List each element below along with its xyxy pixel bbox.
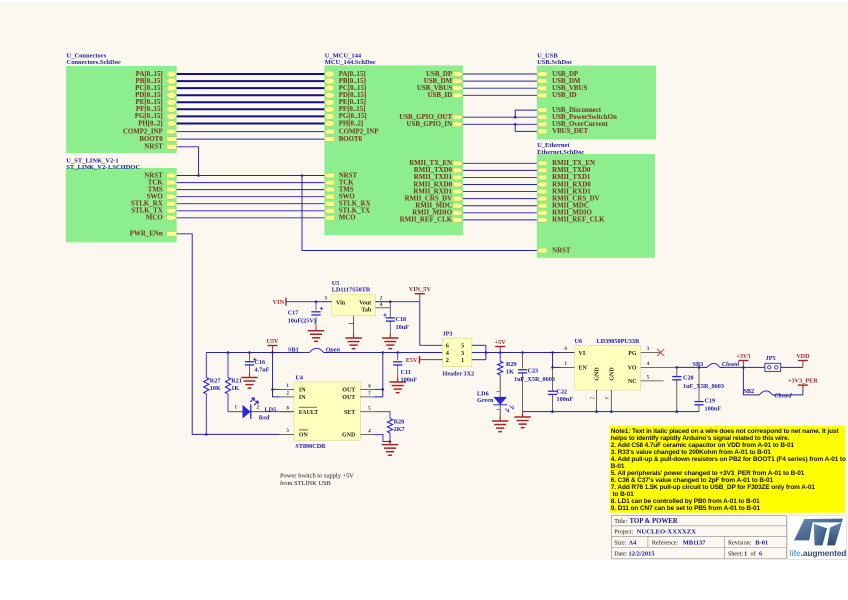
svg-text:LD5: LD5 xyxy=(265,406,277,413)
capacitor C11 xyxy=(397,353,399,361)
svg-text:VIN: VIN xyxy=(273,299,285,306)
ground (C17) xyxy=(315,326,317,331)
LED LD5 (Red) xyxy=(228,411,243,413)
svg-text:PG[0..15]: PG[0..15] xyxy=(339,113,367,120)
svg-text:5: 5 xyxy=(461,344,464,350)
sheet entry RMII_TX_EN (U_MCU_144 right) xyxy=(453,161,463,166)
svg-text:Title:: Title: xyxy=(614,519,627,525)
svg-text:VDD: VDD xyxy=(796,353,810,360)
ground (U5) xyxy=(353,334,355,339)
wire OUT pins to rail xyxy=(374,388,383,390)
svg-text:+3V3_PER: +3V3_PER xyxy=(788,377,818,384)
bus PE[0..15] xyxy=(177,101,325,103)
power switch U4 ST890CDR xyxy=(294,382,360,441)
svg-text:1uF_X5R_0603: 1uF_X5R_0603 xyxy=(683,383,724,390)
svg-text:RMII_TX_EN: RMII_TX_EN xyxy=(409,160,452,167)
svg-text:PD[0..15]: PD[0..15] xyxy=(135,92,163,99)
capacitor C20 xyxy=(676,367,678,376)
bus PH[0..2] xyxy=(177,123,325,125)
sheet entry RMII_MDC (U_Ethernet) xyxy=(537,203,547,208)
sheet entry MCO (U_MCU_144 left) xyxy=(324,216,334,221)
sheet entry NRST (U_Connectors) xyxy=(167,145,177,150)
node junction R27/ON xyxy=(205,433,208,436)
ground (C16) xyxy=(249,373,251,378)
sheet entry PG[0..15] (U_Connectors) xyxy=(166,114,176,120)
wire +5V rail right xyxy=(486,352,575,354)
svg-text:6: 6 xyxy=(446,344,449,350)
svg-text:PWR_ENn: PWR_ENn xyxy=(130,231,163,238)
svg-text:GND: GND xyxy=(609,367,615,381)
sheet entry RMII_CRS_DV (U_MCU_144 right) xyxy=(453,196,463,201)
wire JP3 right pins xyxy=(472,344,486,346)
svg-text:PG: PG xyxy=(628,351,637,357)
svg-text:RMII_RXD1: RMII_RXD1 xyxy=(413,188,452,195)
sheet entry SWO (U_ST_LINK) xyxy=(167,194,177,199)
sheet entry PH[0..2] (U_MCU_144 left) xyxy=(324,121,334,127)
sheet entry PB[0..15] (U_Connectors) xyxy=(166,78,176,84)
svg-text:Date:: Date: xyxy=(614,551,628,557)
resistor R21 xyxy=(227,353,229,378)
pin 5 (U4 right) xyxy=(360,411,374,413)
wire TCK xyxy=(177,182,325,184)
svg-text:BOOT0: BOOT0 xyxy=(139,136,163,143)
svg-text:RMII_MDC: RMII_MDC xyxy=(552,203,589,210)
svg-text:SB2: SB2 xyxy=(743,388,754,395)
svg-text:VI: VI xyxy=(579,351,586,357)
node junction C19 top xyxy=(698,366,701,369)
svg-text:1K: 1K xyxy=(231,385,239,392)
svg-text:MCO: MCO xyxy=(146,215,163,222)
power port U5V xyxy=(272,346,274,353)
sheet entry COMP2_INP (U_Connectors) xyxy=(167,129,177,134)
wire E5V to JP3 pin2 xyxy=(420,359,443,361)
wire SET to R28 xyxy=(374,412,390,419)
sheet entry TCK (U_ST_LINK) xyxy=(167,180,177,185)
sheet entry RMII_MDIO (U_MCU_144 right) xyxy=(453,210,463,215)
svg-text:PA[0..15]: PA[0..15] xyxy=(136,71,163,78)
svg-text:RMII_RXD0: RMII_RXD0 xyxy=(552,181,591,188)
svg-text:Ethernet.SchDoc: Ethernet.SchDoc xyxy=(537,149,584,156)
svg-text:Power Switch to supply +5V: Power Switch to supply +5V xyxy=(280,473,354,480)
node junction GND2 xyxy=(595,410,598,413)
pin 6 (U6 VI) xyxy=(561,352,575,354)
wire EN to U6 xyxy=(553,366,561,368)
svg-text:PF[0..15]: PF[0..15] xyxy=(339,106,366,113)
resistor R29 xyxy=(499,353,501,362)
svg-text:USB_DM: USB_DM xyxy=(424,78,453,85)
svg-text:VO: VO xyxy=(628,366,637,372)
svg-text:BOOT0: BOOT0 xyxy=(339,136,363,143)
wire PWR_ENn to ON xyxy=(177,234,280,435)
node junction R28/GND xyxy=(389,440,392,443)
sheet entry PA[0..15] (U_Connectors) xyxy=(166,71,176,77)
svg-text:PA[0..15]: PA[0..15] xyxy=(339,71,366,78)
wire RMII_TXD0 xyxy=(463,169,537,171)
svg-text:NRST: NRST xyxy=(552,247,571,254)
sheet entry RMII_CRS_DV (U_Ethernet) xyxy=(537,196,547,201)
wire U5V rail left xyxy=(206,352,309,354)
sheet entry USB_GPIO_OUT (U_MCU_144) xyxy=(453,115,463,120)
svg-text:RMII_RXD1: RMII_RXD1 xyxy=(552,188,591,195)
svg-text:USB_DP: USB_DP xyxy=(426,71,453,78)
sheet entry USB_DP (U_MCU_144 right) xyxy=(453,72,463,77)
svg-text:PF[0..15]: PF[0..15] xyxy=(136,106,163,113)
svg-text:Sheet:: Sheet: xyxy=(728,551,744,557)
svg-text:R29: R29 xyxy=(506,361,517,368)
bus PA[0..15] xyxy=(177,73,325,75)
svg-text:SWO: SWO xyxy=(147,194,164,201)
sheet entry USB_ID (U_USB) xyxy=(537,93,547,98)
svg-text:B-01: B-01 xyxy=(755,539,768,546)
node junction C22 top xyxy=(551,351,554,354)
node junction C22 bottom xyxy=(551,410,554,413)
wire RMII_MDC xyxy=(463,205,537,207)
sheet entry PF[0..15] (U_Connectors) xyxy=(166,107,176,113)
svg-text:RMII_REF_CLK: RMII_REF_CLK xyxy=(400,217,453,224)
pin 5 (U6 NC) xyxy=(641,380,664,382)
svg-text:Size:: Size: xyxy=(614,540,626,546)
svg-text:RMII_CRS_DV: RMII_CRS_DV xyxy=(552,195,599,202)
sheet entry NRST (U_Ethernet) xyxy=(537,248,547,253)
node junction C23 top xyxy=(521,351,524,354)
node junction GND0 xyxy=(610,410,613,413)
pin 7 (U4 right) xyxy=(360,396,374,398)
svg-text:JP5: JP5 xyxy=(766,355,776,362)
wire STLK_RX xyxy=(177,203,325,205)
ground (C11) xyxy=(397,378,399,383)
wire LD5 to FAULT xyxy=(251,411,294,413)
svg-text:USB_DM: USB_DM xyxy=(552,78,581,85)
svg-text:STLK_TX: STLK_TX xyxy=(339,208,370,215)
sheet entry RMII_TXD0 (U_Ethernet) xyxy=(537,168,547,173)
node junction OUT6 xyxy=(382,388,385,391)
svg-text:NRST: NRST xyxy=(144,172,163,179)
svg-text:RMII_MDIO: RMII_MDIO xyxy=(412,210,452,217)
svg-text:5. All peripherals' power chan: 5. All peripherals' power changed to +3V… xyxy=(611,470,805,477)
sheet entry USB_VBUS (U_MCU_144 right) xyxy=(453,86,463,91)
svg-text:9. D11 on CN7 can be set to PB: 9. D11 on CN7 can be set to PB5 from A-0… xyxy=(611,505,761,512)
pin 2 (U4 left) xyxy=(280,396,294,398)
svg-text:RMII_REF_CLK: RMII_REF_CLK xyxy=(552,217,605,224)
svg-text:Vin: Vin xyxy=(336,300,346,306)
sheet entry SWO (U_MCU_144 left) xyxy=(324,194,334,199)
pin 4 (U4 right) xyxy=(360,433,374,435)
svg-text:IN: IN xyxy=(299,395,306,401)
svg-text:PH[0..2]: PH[0..2] xyxy=(138,120,163,127)
sheet entry RMII_RXD1 (U_Ethernet) xyxy=(537,189,547,194)
node junction C20 bottom xyxy=(676,410,679,413)
svg-text:OUT: OUT xyxy=(342,395,355,401)
wire RMII_RXD1 xyxy=(463,191,537,193)
svg-text:EN: EN xyxy=(579,366,588,372)
sheet entry RMII_REF_CLK (U_Ethernet) xyxy=(537,218,547,223)
sheet symbol U_Ethernet xyxy=(537,154,655,258)
svg-text:PC[0..15]: PC[0..15] xyxy=(339,85,367,92)
bus PC[0..15] xyxy=(177,87,325,89)
svg-text:ST890CDR: ST890CDR xyxy=(295,443,326,450)
svg-text:STLK_RX: STLK_RX xyxy=(339,201,371,208)
svg-text:STLK_TX: STLK_TX xyxy=(131,208,162,215)
svg-text:PC[0..15]: PC[0..15] xyxy=(135,85,163,92)
power port E5V xyxy=(419,356,421,364)
node junction C17 xyxy=(315,300,318,303)
wire USB_GPIO_OUT / USB_PowerSwitchOn xyxy=(463,116,537,118)
wire MCO xyxy=(177,217,325,219)
svg-text:RMII_TXD0: RMII_TXD0 xyxy=(414,167,453,174)
svg-text:Reference:: Reference: xyxy=(652,539,679,546)
wire USB_DM xyxy=(463,80,537,82)
sheet entry USB_OverCurrent (U_USB) xyxy=(537,122,547,127)
sheet entry PB[0..15] (U_MCU_144 left) xyxy=(324,78,334,84)
svg-text:PH[0..2]: PH[0..2] xyxy=(339,120,364,127)
svg-text:1: 1 xyxy=(461,358,464,364)
sheet entry BOOT0 (U_MCU_144) xyxy=(324,137,334,142)
svg-text:Project:: Project: xyxy=(614,529,633,535)
sheet entry RMII_TX_EN (U_Ethernet) xyxy=(537,161,547,166)
svg-text:NC: NC xyxy=(628,379,637,385)
sheet entry COMP2_INP (U_MCU_144) xyxy=(324,129,334,134)
ground (C23) xyxy=(522,412,524,417)
sheet symbol U_USB xyxy=(537,66,656,140)
bus PG[0..15] xyxy=(177,115,325,117)
svg-text:RMII_MDIO: RMII_MDIO xyxy=(552,210,592,217)
svg-text:from STLINK USB: from STLINK USB xyxy=(280,480,331,487)
node junction OUT vertical xyxy=(382,351,385,354)
wire RMII_TXD1 xyxy=(463,176,537,178)
svg-text:100nF: 100nF xyxy=(705,405,722,412)
sheet entry USB_VBUS (U_USB) xyxy=(537,86,547,91)
svg-text:TOP & POWER: TOP & POWER xyxy=(630,518,678,525)
svg-text:C19: C19 xyxy=(705,398,716,405)
svg-text:COMP2_INP: COMP2_INP xyxy=(339,128,380,135)
svg-text:PD[0..15]: PD[0..15] xyxy=(339,92,367,99)
sheet entry RMII_TXD1 (U_MCU_144 right) xyxy=(453,175,463,180)
svg-text:IN: IN xyxy=(299,388,306,394)
svg-text:USB_VBUS: USB_VBUS xyxy=(552,85,587,92)
sheet entry PC[0..15] (U_MCU_144 left) xyxy=(324,85,334,91)
svg-text:C18: C18 xyxy=(396,316,407,323)
node junction +5V xyxy=(499,351,502,354)
svg-text:R28: R28 xyxy=(394,418,405,425)
sheet entry USB_ID (U_MCU_144 right) xyxy=(453,93,463,98)
svg-text:A4: A4 xyxy=(629,539,638,546)
svg-text:USB_ID: USB_ID xyxy=(552,92,577,99)
power port VDD xyxy=(802,361,804,368)
svg-text:Red: Red xyxy=(259,415,270,422)
sheet entry NRST (U_MCU_144 left) xyxy=(324,173,334,178)
node junction C16 xyxy=(248,351,251,354)
svg-text:Connectors.SchDoc: Connectors.SchDoc xyxy=(67,59,121,66)
node junction U5V/IN xyxy=(271,351,274,354)
svg-text:COMP2_INP: COMP2_INP xyxy=(123,128,164,135)
pin 4 (U5) xyxy=(375,307,390,309)
node junction C11 xyxy=(396,351,399,354)
sheet entry RMII_TXD1 (U_Ethernet) xyxy=(537,175,547,180)
svg-text:RMII_TXD0: RMII_TXD0 xyxy=(552,167,591,174)
wire +3V3 to SB2 xyxy=(743,367,759,395)
notes block xyxy=(610,426,846,513)
pin 3 (U5) xyxy=(316,301,332,303)
solder bridge SB1 (Open) xyxy=(303,352,310,354)
sheet entry NRST (U_ST_LINK) xyxy=(167,173,177,178)
wire VIN_5V down to JP3 pin6 xyxy=(420,302,443,346)
svg-text:USB_VBUS: USB_VBUS xyxy=(417,85,452,92)
svg-text:USB_OverCurrent: USB_OverCurrent xyxy=(552,121,608,128)
svg-text:E5V: E5V xyxy=(406,357,418,364)
svg-text:MCU_144.SchDoc: MCU_144.SchDoc xyxy=(325,59,376,66)
sheet entry PE[0..15] (U_Connectors) xyxy=(166,100,176,106)
wire branch to VBUS_DET xyxy=(515,124,537,131)
svg-text:10uF(25V): 10uF(25V) xyxy=(288,317,316,324)
wire branch to USB_Disconnect xyxy=(515,110,537,117)
svg-text:2: 2 xyxy=(446,358,449,364)
pin 4 (U6 VO) xyxy=(641,366,677,368)
svg-text:SWO: SWO xyxy=(339,194,356,201)
capacitor C16 xyxy=(249,353,251,362)
capacitor C19 xyxy=(698,367,700,401)
svg-text:C16: C16 xyxy=(255,359,266,366)
sheet entry USB_Disconnect (U_USB) xyxy=(537,108,547,113)
svg-text:USB_GPIO_OUT: USB_GPIO_OUT xyxy=(399,114,452,121)
svg-text:SET: SET xyxy=(344,410,355,416)
pin 8 (U4 left) xyxy=(280,411,294,413)
svg-text:12/2/2015: 12/2/2015 xyxy=(629,550,655,557)
capacitor C18 xyxy=(389,302,391,318)
svg-text:PE[0..15]: PE[0..15] xyxy=(136,99,163,106)
pins GND 2/0 (U6) xyxy=(596,390,598,412)
pin 1 (U6 EN) xyxy=(561,366,575,368)
svg-text:PB[0..15]: PB[0..15] xyxy=(136,78,163,85)
pin 3 (U6 PG) + no-connect xyxy=(641,352,661,354)
wire USB_DP xyxy=(463,73,537,75)
node junction GPIO_IN xyxy=(514,123,517,126)
svg-text:8. LD1 can be controlled by PB: 8. LD1 can be controlled by PB0 from A-0… xyxy=(611,498,760,505)
svg-text:MCO: MCO xyxy=(339,215,356,222)
wire NRST STLINK to MCU xyxy=(177,175,325,177)
svg-text:R27: R27 xyxy=(210,377,221,384)
header JP3 xyxy=(443,338,472,367)
capacitor C23 xyxy=(522,353,524,369)
ST logo box xyxy=(788,516,847,560)
ground (U4/R28) xyxy=(389,442,391,445)
wire RMII_TX_EN xyxy=(463,162,537,164)
svg-text:USB_DP: USB_DP xyxy=(552,71,579,78)
node junction +3V3 xyxy=(742,366,745,369)
sheet entry RMII_RXD0 (U_MCU_144 right) xyxy=(453,182,463,187)
svg-text:C23: C23 xyxy=(528,368,539,375)
sheet entry VBUS_DET (U_USB) xyxy=(537,129,547,134)
wire STLK_TX xyxy=(177,210,325,212)
wire Vout / VIN_5V xyxy=(375,301,419,303)
sheet entry USB_DM (U_USB) xyxy=(537,79,547,84)
sheet entry STLK_TX (U_ST_LINK) xyxy=(167,209,177,214)
wire GND(U4) to ground xyxy=(374,434,390,441)
svg-text:VBUS_DET: VBUS_DET xyxy=(552,128,588,135)
svg-text:PE[0..15]: PE[0..15] xyxy=(339,99,366,106)
svg-text:Revision:: Revision: xyxy=(728,540,752,546)
svg-text:USB_PowerSwitchOn: USB_PowerSwitchOn xyxy=(552,114,617,121)
svg-text:RMII_MDC: RMII_MDC xyxy=(415,203,452,210)
sheet symbol U_Connectors xyxy=(66,66,177,153)
svg-text:Closed: Closed xyxy=(774,392,792,399)
regulator U6 LD39050PU33R xyxy=(575,346,641,390)
wire VI rail xyxy=(486,352,561,354)
node NRST junction 2 xyxy=(301,174,304,177)
sheet entry PC[0..15] (U_Connectors) xyxy=(166,85,176,91)
svg-text:TMS: TMS xyxy=(339,186,354,193)
power port +3V3 xyxy=(742,361,744,368)
wire GND bus xyxy=(523,411,699,413)
svg-text:USB_ID: USB_ID xyxy=(428,92,453,99)
power port VIN_5V xyxy=(419,294,421,302)
wire RMII_REF_CLK xyxy=(463,219,537,221)
svg-text:1: 1 xyxy=(744,550,747,557)
resistor R28 xyxy=(387,419,392,434)
sheet entry PE[0..15] (U_MCU_144 left) xyxy=(324,100,334,106)
svg-text:Vout: Vout xyxy=(359,300,371,306)
wire RMII_RXD0 xyxy=(463,184,537,186)
pin 3 (U4 left) xyxy=(280,433,294,435)
svg-text:USB_GPIO_IN: USB_GPIO_IN xyxy=(407,121,453,128)
sheet entry PF[0..15] (U_MCU_144 left) xyxy=(324,107,334,113)
svg-text:Green: Green xyxy=(477,397,494,404)
sheet entry PA[0..15] (U_MCU_144 left) xyxy=(324,71,334,77)
wire SWO xyxy=(177,196,325,198)
wire rail SB1 to JP3 xyxy=(324,352,443,354)
svg-text:STLK_RX: STLK_RX xyxy=(131,201,163,208)
wire USB_VBUS xyxy=(463,87,537,89)
ground (C18) xyxy=(389,334,391,339)
sheet entry RMII_MDIO (U_Ethernet) xyxy=(537,210,547,215)
node junction JP3 right xyxy=(485,351,488,354)
node junction C20 xyxy=(676,366,679,369)
svg-text:2. Add C58 4.7uF ceramic capac: 2. Add C58 4.7uF ceramic capacitor on VD… xyxy=(611,442,795,449)
capacitor C17 xyxy=(315,302,317,311)
svg-text:GND: GND xyxy=(595,367,601,381)
svg-text:TCK: TCK xyxy=(148,179,164,186)
sheet entry RMII_TXD0 (U_MCU_144 right) xyxy=(453,168,463,173)
wire NRST from connectors xyxy=(177,147,199,176)
svg-text:1uF_X5R_0603: 1uF_X5R_0603 xyxy=(514,376,555,383)
svg-text:helps to identify rapidly Ardu: helps to identify rapidly Arduino's sign… xyxy=(611,435,790,442)
pin Gnd (U5) xyxy=(353,316,355,338)
svg-text:OUT: OUT xyxy=(342,388,355,394)
svg-text:RMII_TXD1: RMII_TXD1 xyxy=(414,174,453,181)
svg-text:+3V3: +3V3 xyxy=(736,353,750,360)
title block frame xyxy=(611,515,786,517)
node junction C18 xyxy=(389,300,392,303)
wire RMII_CRS_DV xyxy=(463,198,537,200)
bus PB[0..15] xyxy=(177,80,325,82)
pin 2 (U5) xyxy=(375,301,390,303)
svg-text:RMII_TX_EN: RMII_TX_EN xyxy=(552,160,595,167)
sheet entry MCO (U_ST_LINK) xyxy=(167,216,177,221)
svg-text:to B-01: to B-01 xyxy=(611,491,634,498)
sheet entry USB_GPIO_IN (U_MCU_144) xyxy=(453,122,463,127)
wire USB_ID xyxy=(463,94,537,96)
sheet entry USB_DM (U_MCU_144 right) xyxy=(453,79,463,84)
sheet entry RMII_RXD1 (U_MCU_144 right) xyxy=(453,189,463,194)
svg-text:1K: 1K xyxy=(506,368,514,375)
wire VIN to U5 xyxy=(286,301,332,303)
svg-text:3: 3 xyxy=(461,351,464,357)
sheet entry PH[0..2] (U_Connectors) xyxy=(166,121,176,127)
svg-text:4.7uF: 4.7uF xyxy=(255,367,270,374)
svg-text:10K: 10K xyxy=(210,385,221,392)
power port VIN xyxy=(285,298,287,306)
sheet entry PD[0..15] (U_MCU_144 left) xyxy=(324,92,334,98)
wire NRST to Ethernet xyxy=(302,176,537,251)
